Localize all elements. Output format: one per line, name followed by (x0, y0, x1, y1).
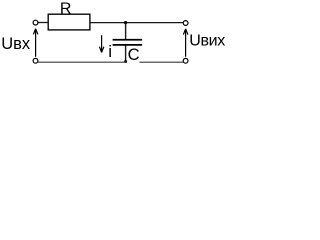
arrow: Uvyh voltage arrow (up) (183, 29, 188, 57)
wire: capacitor top lead (125, 23, 127, 40)
node: junction dot, bottom rail / capacitor branch (124, 60, 127, 63)
svg-text:Uвих: Uвих (189, 33, 225, 50)
terminal: input top (open circle) (33, 20, 38, 25)
terminal: output top (open circle) (183, 21, 188, 26)
wire: top rail, resistor right lead to output terminal (90, 22, 184, 24)
capacitor C bottom plate (113, 44, 143, 46)
node: junction dot, top rail / capacitor branch (124, 21, 127, 24)
wire: top rail, input terminal to resistor left lead (38, 22, 49, 24)
svg-text:R: R (60, 1, 72, 18)
svg-text:Uвх: Uвх (1, 35, 31, 53)
svg-text:C: C (128, 45, 140, 64)
arrow: capacitor current i (down) (99, 35, 104, 52)
arrow: Uvx voltage arrow (up) (33, 29, 38, 57)
wire: capacitor bottom lead (125, 46, 127, 63)
svg-text:i: i (108, 42, 112, 61)
wire: bottom rail, left segment (38, 61, 127, 63)
capacitor C top plate (113, 39, 143, 41)
wire: bottom rail, right segment (139, 61, 183, 63)
resistor R (48, 14, 90, 30)
terminal: input bottom (open circle) (33, 58, 38, 63)
terminal: output bottom (open circle) (183, 58, 188, 63)
